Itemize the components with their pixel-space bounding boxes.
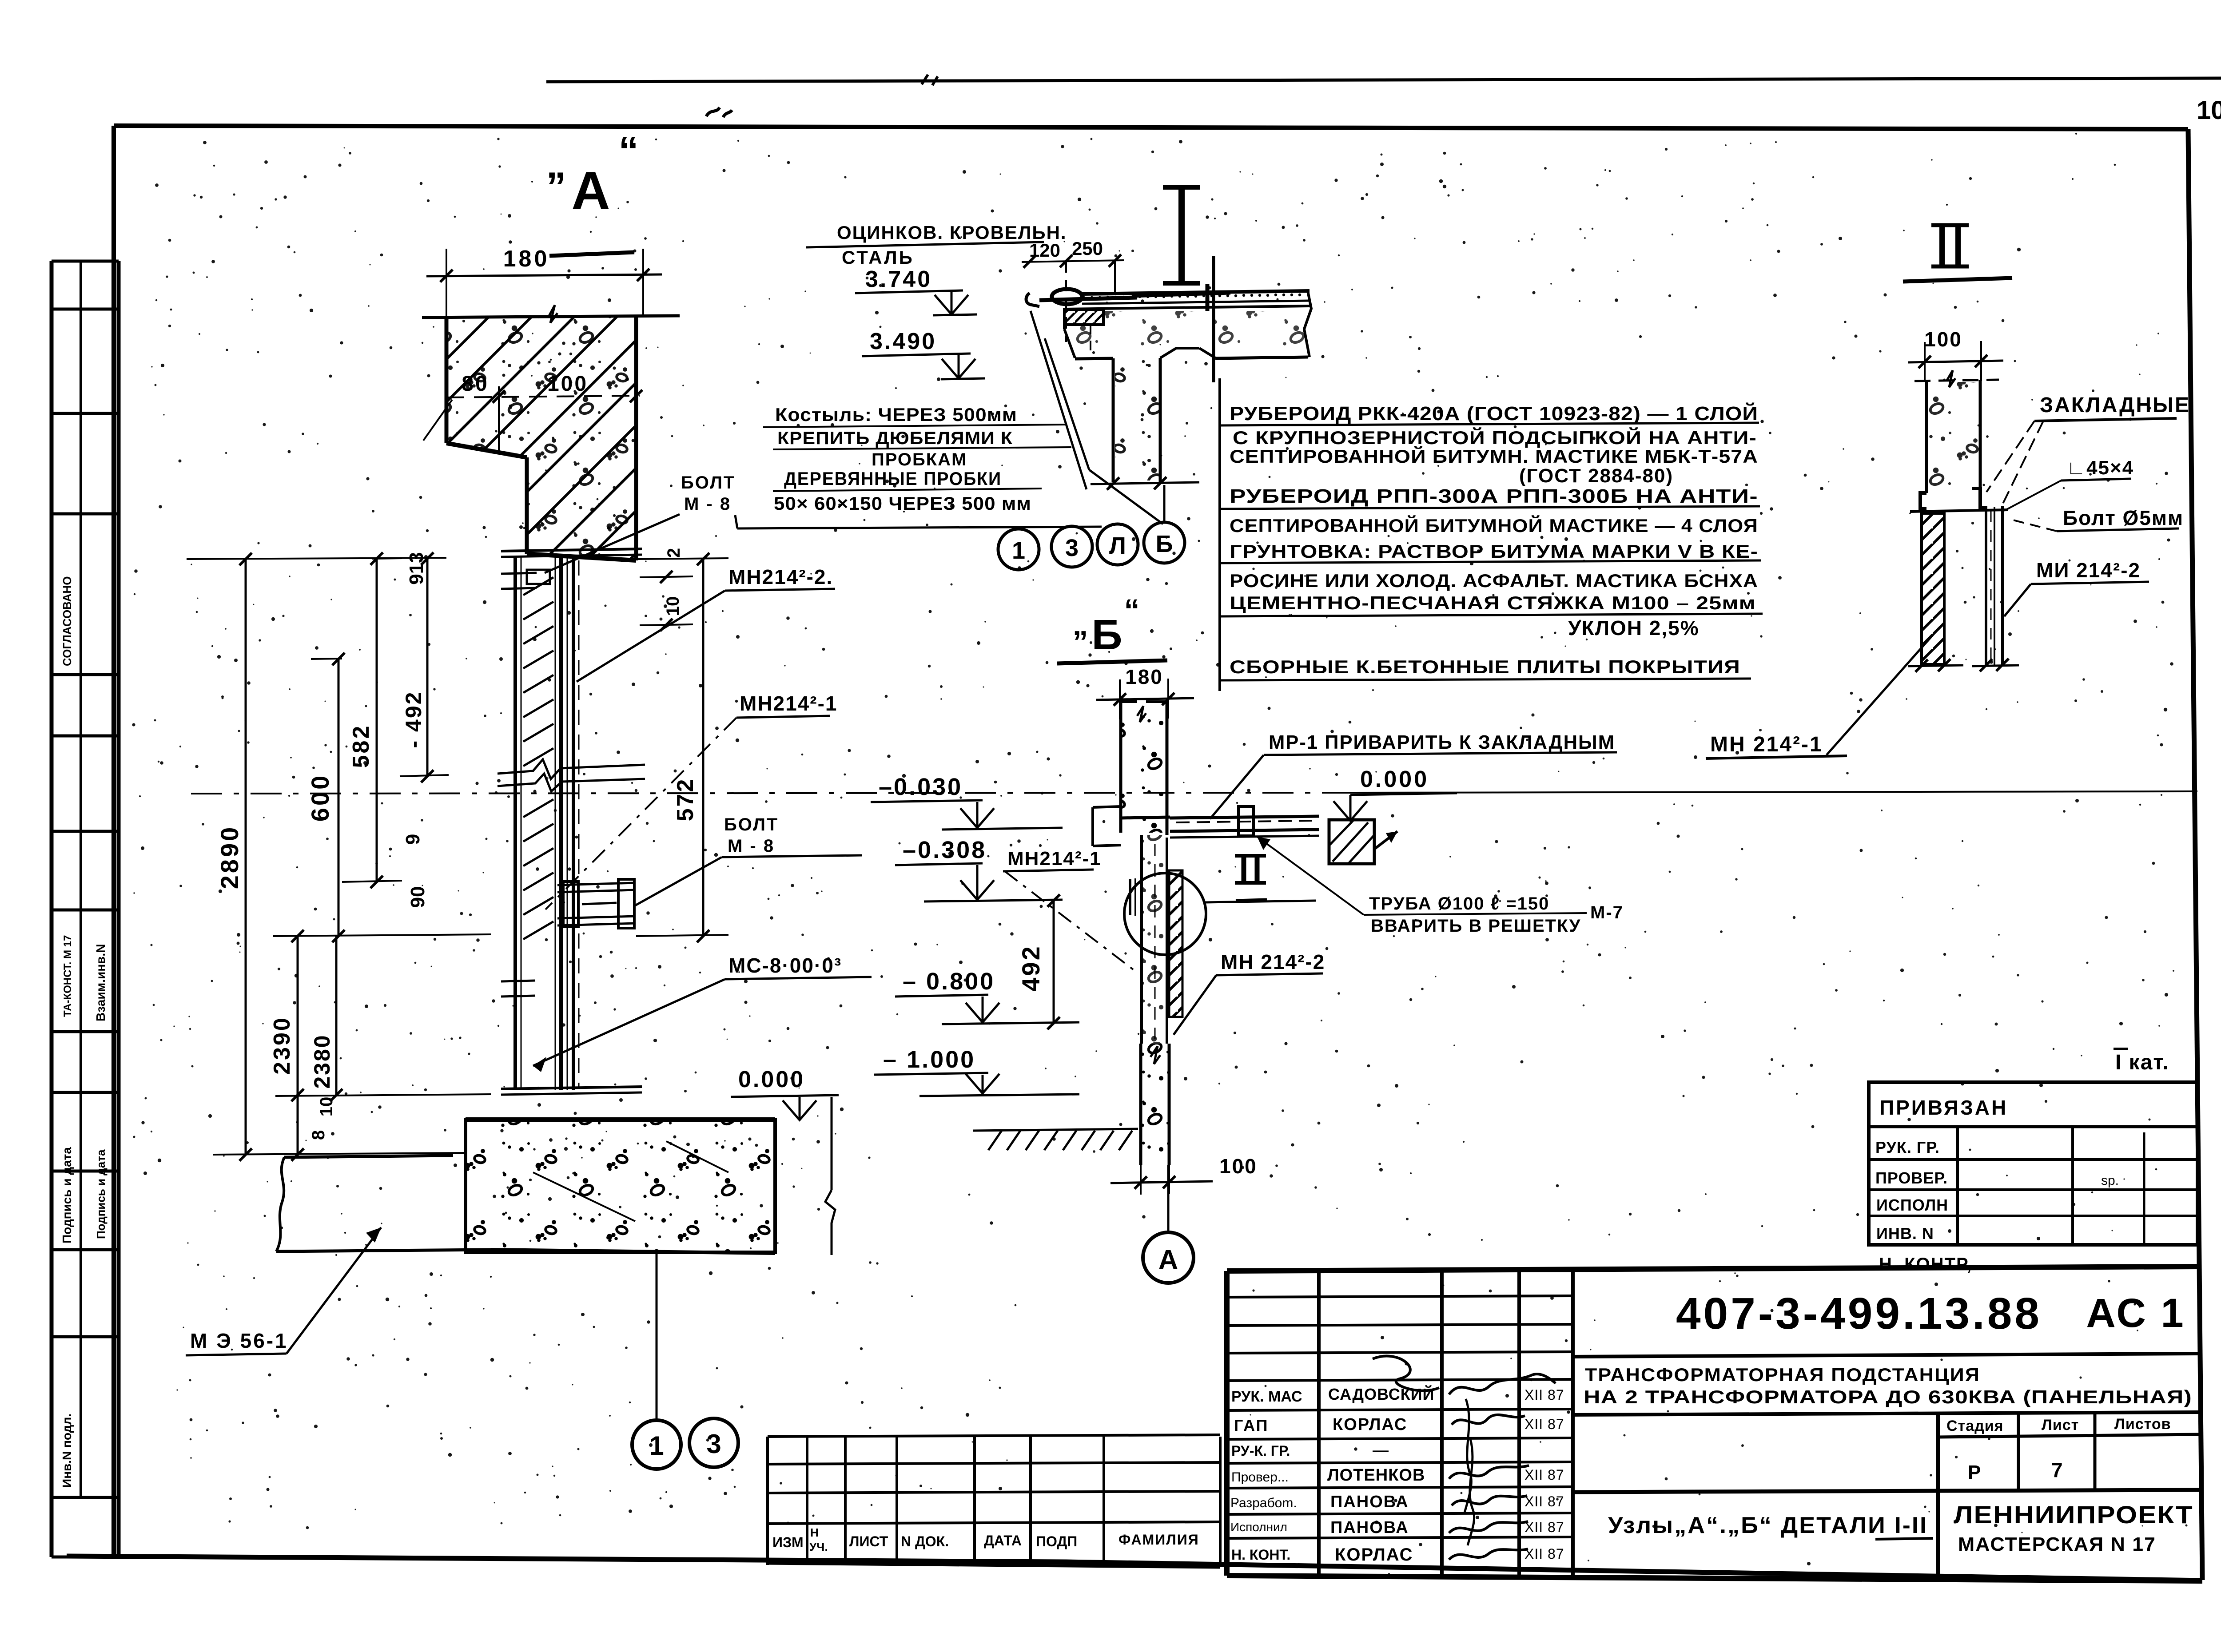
МЭ56-1 label — [186, 1227, 381, 1355]
svg-text:2: 2 — [664, 548, 684, 558]
title block outer — [1227, 1267, 2202, 1581]
detail B dim 100 bottom — [1110, 1155, 1258, 1195]
detail A dim 80 / 100 — [423, 372, 642, 451]
svg-text:100: 100 — [547, 372, 588, 396]
detail A wall section (hatched concrete panel) — [204, 305, 915, 560]
svg-text:РУБЕРОИД РКК-420А (ГОСТ 10923-: РУБЕРОИД РКК-420А (ГОСТ 10923-82) — 1 СЛ… — [1230, 402, 1758, 425]
svg-text:М - 8: М - 8 — [684, 494, 731, 514]
roofing specification text block — [1220, 378, 1763, 691]
svg-text:ОЦИНКОВ. КРОВЕЛЬН.: ОЦИНКОВ. КРОВЕЛЬН. — [837, 222, 1067, 243]
svg-text:ФАМИЛИЯ: ФАМИЛИЯ — [1118, 1532, 1199, 1548]
svg-text:Инв.N подл.: Инв.N подл. — [60, 1414, 74, 1488]
svg-text:Н. КОНТР,: Н. КОНТР, — [1879, 1255, 1972, 1274]
detail B elevation -0.800 — [895, 968, 1079, 1024]
detail B elevation -0.030 — [871, 774, 1063, 830]
svg-text:М - 8: М - 8 — [728, 836, 775, 856]
svg-text:ЛЕННИИПРОЕКТ: ЛЕННИИПРОЕКТ — [1954, 1501, 2193, 1529]
svg-text:ИНВ. N: ИНВ. N — [1876, 1224, 1934, 1243]
svg-text:3.740: 3.740 — [865, 266, 932, 292]
svg-text:А: А — [572, 161, 610, 220]
detail B label МН214п-1 — [1003, 848, 1137, 973]
svg-text:Листов: Листов — [2114, 1416, 2171, 1433]
svg-text:Исполнил: Исполнил — [1230, 1520, 1287, 1534]
svg-text:1: 1 — [1012, 537, 1025, 564]
svg-text:ПАНОВА: ПАНОВА — [1330, 1518, 1409, 1537]
svg-text:8: 8 — [309, 1130, 328, 1140]
I kat note — [2114, 1049, 2169, 1074]
node axis line to circles 1 3 — [656, 1253, 658, 1420]
svg-text:КРЕПИТЬ ДЮБЕЛЯМИ К: КРЕПИТЬ ДЮБЕЛЯМИ К — [777, 429, 1013, 448]
detail B label труба — [1257, 837, 1624, 936]
svg-text:3: 3 — [706, 1429, 721, 1459]
svg-text:СОГЛАСОВАНО: СОГЛАСОВАНО — [60, 576, 74, 666]
svg-text:ВВАРИТЬ В РЕШЕТКУ: ВВАРИТЬ В РЕШЕТКУ — [1371, 916, 1581, 936]
svg-text:572: 572 — [673, 778, 698, 822]
svg-text:РУК. ГР.: РУК. ГР. — [1875, 1138, 1940, 1156]
svg-text:Лист: Лист — [2042, 1417, 2079, 1434]
svg-text:КОРЛАС: КОРЛАС — [1335, 1545, 1413, 1565]
svg-text:- 492: - 492 — [401, 691, 426, 748]
svg-text:ПАНОВА: ПАНОВА — [1330, 1493, 1409, 1511]
svg-text:ЛИСТ: ЛИСТ — [849, 1533, 888, 1549]
svg-text:“: “ — [619, 129, 639, 173]
title block left rows — [1227, 1296, 1573, 1565]
svg-text:С КРУПНОЗЕРНИСТОЙ ПОДСЫПКОЙ: С КРУПНОЗЕРНИСТОЙ ПОДСЫПКОЙ НА АНТИ- — [1233, 427, 1757, 448]
svg-text:250: 250 — [1072, 238, 1103, 259]
svg-text:ѕр.: ѕр. — [2101, 1173, 2119, 1188]
svg-text:50× 60×150 ЧЕРЕЗ 500 мм: 50× 60×150 ЧЕРЕЗ 500 мм — [774, 493, 1031, 514]
svg-text:Подпись и дата: Подпись и дата — [94, 1149, 107, 1239]
detail II lower assembly — [1908, 506, 2019, 672]
svg-text:ХII 87: ХII 87 — [1524, 1416, 1564, 1432]
svg-text:—: — — [1373, 1441, 1389, 1459]
svg-text:913: 913 — [406, 552, 427, 584]
svg-text:ДАТА: ДАТА — [984, 1533, 1022, 1549]
detail A left dimension chains — [187, 548, 728, 1161]
svg-text:КОРЛАС: КОРЛАС — [1333, 1415, 1407, 1434]
detail B wall column upper — [1121, 702, 1167, 835]
label МН 214п-1 (leader to detail II) — [1706, 631, 1937, 758]
detail B right concrete block — [1329, 820, 1397, 864]
detail B elevation -1.000 — [874, 1046, 1079, 1096]
detail B label МР-1 приварить — [1210, 731, 1617, 819]
svg-text:А: А — [1158, 1245, 1178, 1275]
svg-text:САДОВСКИЙ: САДОВСКИЙ — [1328, 1385, 1434, 1403]
svg-text:7: 7 — [2051, 1458, 2063, 1481]
svg-text:Узлы„А“.„Б“ ДЕТАЛИ I-II: Узлы„А“.„Б“ ДЕТАЛИ I-II — [1608, 1513, 1928, 1538]
svg-text:–0.308: –0.308 — [903, 837, 987, 863]
svg-text:ПРОБКАМ: ПРОБКАМ — [872, 450, 967, 469]
detail I title — [1132, 187, 1230, 296]
detail I notes (spikes, plugs) — [763, 404, 1071, 514]
svg-text:90: 90 — [407, 886, 429, 908]
svg-text:Костыль: ЧЕРЕЗ 500мм: Костыль: ЧЕРЕЗ 500мм — [775, 404, 1017, 425]
svg-text:УЧ.: УЧ. — [809, 1540, 828, 1553]
detail B floor grate MP-1 — [1093, 806, 1319, 846]
svg-text:ПОДП: ПОДП — [1036, 1533, 1077, 1549]
svg-text:0.000: 0.000 — [738, 1067, 805, 1092]
svg-text:СТАЛЬ: СТАЛЬ — [842, 247, 914, 268]
svg-text:(ГОСТ 2884-80): (ГОСТ 2884-80) — [1519, 465, 1673, 487]
svg-text:ДЕРЕВЯННЫЕ ПРОБКИ: ДЕРЕВЯННЫЕ ПРОБКИ — [784, 468, 1002, 489]
svg-text:СЕПТИРОВАННОЙ БИТУМН. МАСТИКЕ: СЕПТИРОВАННОЙ БИТУМН. МАСТИКЕ МБК-Т-57А — [1230, 445, 1758, 467]
svg-text:МР-1 ПРИВАРИТЬ К ЗАКЛАДНЫ: МР-1 ПРИВАРИТЬ К ЗАКЛАДНЫМ — [1269, 731, 1615, 753]
svg-text:РУ-К. ГР.: РУ-К. ГР. — [1231, 1443, 1290, 1459]
detail B ground hatch — [973, 1129, 1138, 1150]
svg-text:ПРИВЯЗАН: ПРИВЯЗАН — [1879, 1096, 2008, 1119]
detail B dim 492 — [1017, 894, 1060, 1029]
svg-text:3.490: 3.490 — [870, 329, 936, 354]
svg-text:БОЛТ: БОЛТ — [724, 815, 779, 834]
svg-text:I кат.: I кат. — [2115, 1051, 2169, 1074]
revision table — [768, 1435, 1220, 1567]
svg-text:РОСИНЕ ИЛИ ХОЛОД. АСФАЛЬТ.: РОСИНЕ ИЛИ ХОЛОД. АСФАЛЬТ. МАСТИКА БСНХА — [1230, 570, 1758, 591]
svg-text:ИЗМ: ИЗМ — [772, 1534, 804, 1550]
title block project name — [1573, 1364, 2199, 1415]
svg-text:„: „ — [546, 142, 566, 187]
svg-text:“: “ — [1124, 593, 1140, 627]
svg-text:N ДОК.: N ДОК. — [901, 1533, 949, 1549]
svg-text:„: „ — [1073, 607, 1088, 642]
svg-text:– 1.000: – 1.000 — [883, 1046, 975, 1073]
svg-text:Стадия: Стадия — [1946, 1418, 2003, 1434]
svg-text:2390: 2390 — [269, 1016, 295, 1075]
svg-text:ХII 87: ХII 87 — [1524, 1519, 1564, 1535]
detail B title — [1057, 593, 1167, 663]
svg-text:ХII 87: ХII 87 — [1524, 1387, 1564, 1403]
svg-text:– 0.800: – 0.800 — [903, 968, 995, 995]
svg-text:Н. КОНТ.: Н. КОНТ. — [1231, 1547, 1290, 1563]
svg-text:АС 1: АС 1 — [2086, 1291, 2185, 1336]
svg-text:Подпись и дата: Подпись и дата — [60, 1147, 74, 1243]
detail II labels — [1986, 393, 2190, 616]
svg-text:ТРУБА Ø100 ℓ =150: ТРУБА Ø100 ℓ =150 — [1369, 894, 1549, 913]
svg-text:492: 492 — [1017, 945, 1045, 991]
svg-text:Разрабоm.: Разрабоm. — [1230, 1496, 1297, 1510]
scan artifact marks — [706, 107, 732, 117]
svg-text:ГАП: ГАП — [1234, 1416, 1269, 1434]
svg-text:МН214²-1: МН214²-1 — [1007, 848, 1102, 870]
svg-text:ХII 87: ХII 87 — [1524, 1546, 1564, 1562]
svg-text:РУК. МАС: РУК. МАС — [1231, 1388, 1302, 1405]
svg-text:Взаим.инв.N: Взаим.инв.N — [94, 944, 107, 1021]
svg-text:Б: Б — [1156, 531, 1173, 557]
svg-text:407-3-499.13.88: 407-3-499.13.88 — [1676, 1289, 2042, 1338]
svg-text:582: 582 — [348, 724, 374, 768]
stadiya list listov — [1573, 1414, 2199, 1576]
detail I roof slab section — [1026, 256, 1311, 490]
svg-text:МН 214²-1: МН 214²-1 — [1710, 733, 1823, 756]
detail I leader lines — [1031, 311, 1087, 489]
svg-text:МАСТЕРСКАЯ N 17: МАСТЕРСКАЯ N 17 — [1958, 1533, 2156, 1555]
svg-text:УКЛОН 2,5%: УКЛОН 2,5% — [1568, 616, 1700, 639]
svg-text:НА 2 ТРАНСФОРМАТОРА ДО 630КВ: НА 2 ТРАНСФОРМАТОРА ДО 630КВА (ПАНЕЛЬНАЯ… — [1584, 1386, 2192, 1407]
svg-text:СЕПТИРОВАННОЙ БИТУМНОЙ МАСТИ: СЕПТИРОВАННОЙ БИТУМНОЙ МАСТИКЕ — 4 СЛОЯ — [1230, 515, 1758, 536]
svg-text:600: 600 — [306, 774, 334, 822]
svg-text:ПРОВЕР.: ПРОВЕР. — [1875, 1169, 1948, 1187]
svg-text:Л: Л — [1109, 532, 1126, 559]
svg-text:Б: Б — [1092, 611, 1122, 659]
svg-text:ХII 87: ХII 87 — [1524, 1467, 1564, 1483]
svg-text:Болт Ø5мм: Болт Ø5мм — [2063, 506, 2184, 529]
svg-text:180: 180 — [503, 246, 550, 272]
detail A top dimension 180 — [426, 246, 662, 317]
svg-text:10: 10 — [2197, 96, 2221, 125]
node circle 3 — [689, 1418, 738, 1467]
node circle 1 — [632, 1420, 681, 1469]
datum level line — [191, 793, 1348, 794]
axis circle A — [1143, 1165, 1194, 1283]
svg-text:МН214²-2.: МН214²-2. — [728, 565, 833, 588]
callout circles 1 3 Л Б — [998, 485, 1185, 570]
svg-text:Р: Р — [1968, 1461, 1981, 1483]
detail A louvre panel assembly — [498, 549, 645, 1095]
svg-text:ЗАКЛАДНЫЕ: ЗАКЛАДНЫЕ — [2040, 393, 2190, 417]
svg-text:100: 100 — [1924, 328, 1962, 351]
svg-text:2890: 2890 — [215, 825, 243, 890]
detail B lower stem and panel — [1130, 835, 1182, 1165]
svg-text:МН 214²-2: МН 214²-2 — [1221, 950, 1325, 973]
detail B II mark — [1235, 855, 1267, 901]
svg-text:180: 180 — [1125, 665, 1163, 688]
svg-text:ХII 87: ХII 87 — [1524, 1493, 1564, 1509]
detail A title — [546, 129, 639, 256]
svg-text:РУБЕРОИД РПП-300А РПП-300Б: РУБЕРОИД РПП-300А РПП-300Б НА АНТИ- — [1230, 485, 1758, 507]
detail I dims 120 250 — [1022, 238, 1124, 342]
svg-text:БОЛТ: БОЛТ — [681, 473, 736, 492]
svg-text:2380: 2380 — [310, 1034, 334, 1088]
svg-text:ТРАНСФОРМАТОРНАЯ ПОДСТАНЦИЯ: ТРАНСФОРМАТОРНАЯ ПОДСТАНЦИЯ — [1585, 1364, 1980, 1385]
svg-text:МИ 214²-2: МИ 214²-2 — [2036, 559, 2141, 582]
svg-text:0.000: 0.000 — [1360, 766, 1429, 792]
svg-text:–0.030: –0.030 — [879, 774, 963, 800]
svg-text:МН214²-1: МН214²-1 — [740, 692, 838, 715]
detail B detail-II indicator circle — [1124, 873, 1206, 955]
svg-text:МС-8·00·0³: МС-8·00·0³ — [728, 954, 842, 977]
svg-text:Н: Н — [810, 1526, 819, 1539]
detail B 0.000 elevation — [1333, 766, 1457, 821]
svg-text:80: 80 — [462, 372, 489, 396]
detail II title — [1903, 224, 2012, 282]
sheet title uzly — [1608, 1513, 1933, 1539]
detail II column — [1915, 370, 1999, 509]
svg-text:9: 9 — [402, 834, 424, 845]
detail B dim 180 — [1096, 665, 1194, 719]
svg-text:СБОРНЫЕ К.БЕТОННЫЕ ПЛИТЫ: СБОРНЫЕ К.БЕТОННЫЕ ПЛИТЫ ПОКРЫТИЯ — [1230, 656, 1740, 677]
detail B label МН214п-2 — [1174, 950, 1325, 1035]
title block doc number — [1573, 1289, 2199, 1357]
left margin column table — [52, 261, 119, 1557]
svg-text:ГРУНТОВКА: РАСТВОР БИТУМА: ГРУНТОВКА: РАСТВОР БИТУМА МАРКИ V В КЕ- — [1230, 541, 1758, 562]
svg-text:∟45×4: ∟45×4 — [2066, 457, 2134, 479]
privyazan table — [1869, 1082, 2197, 1274]
svg-text:Провер...: Провер... — [1231, 1470, 1289, 1485]
svg-text:ТА-КОНСТ. М 17: ТА-КОНСТ. М 17 — [62, 935, 74, 1017]
svg-text:М Э 56-1: М Э 56-1 — [190, 1329, 288, 1352]
detail II dim 100 — [1908, 328, 2003, 382]
svg-text:ИСПОЛН: ИСПОЛН — [1876, 1196, 1948, 1214]
detail B elevation -0.308 — [895, 837, 1063, 901]
svg-text:М-7: М-7 — [1590, 903, 1624, 922]
detail I labels left — [806, 222, 1067, 379]
detail A foundation block — [276, 1067, 839, 1255]
svg-text:3: 3 — [1065, 535, 1079, 561]
svg-text:ЛОТЕНКОВ: ЛОТЕНКОВ — [1327, 1466, 1425, 1485]
svg-text:100: 100 — [1219, 1155, 1258, 1178]
lenniiproekt — [1954, 1501, 2193, 1555]
detail A labels right side — [533, 473, 1102, 1072]
